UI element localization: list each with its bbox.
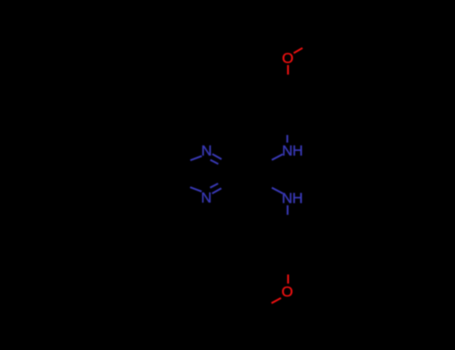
bond top NH to C2 blue half: [272, 154, 283, 160]
C3 to bottom anilino N carbon half (invisible): [231, 177, 272, 188]
bond bottom O to phenyl red half: [287, 275, 289, 284]
bond N1-C8a blue half: [190, 156, 202, 160]
bond top NH to phenyl blue half: [286, 135, 288, 143]
svg-text:N: N: [201, 191, 212, 207]
svg-text:N: N: [282, 191, 293, 207]
svg-text:N: N: [201, 144, 212, 160]
top ethyl group (invisible): [303, 13, 316, 48]
bond top O to ethyl CH2 red half: [294, 48, 303, 53]
bond bottom O to ethyl CH2 red half: [272, 298, 282, 303]
bond N1=C2 main blue half: [212, 154, 221, 159]
bond bottom NH to phenyl blue half: [287, 205, 289, 215]
bond N1=C2 inner double line blue half: [210, 160, 218, 164]
C2 to top anilino N carbon half (invisible): [231, 160, 272, 171]
benzo ring (carbon, invisible on black): [144, 150, 185, 198]
bottom phenyl ring (invisible): [268, 215, 307, 275]
bond N4=C3 main blue half: [212, 188, 221, 193]
svg-text:O: O: [281, 284, 293, 300]
bottom ethyl group (invisible): [259, 303, 272, 337]
bond top O to phenyl red half: [287, 65, 289, 75]
svg-text:N: N: [282, 143, 293, 159]
svg-text:H: H: [292, 143, 303, 159]
svg-text:O: O: [282, 51, 294, 67]
bond bottom NH to C3 blue half: [272, 188, 283, 194]
bond N4-C4a blue half: [190, 187, 202, 191]
svg-text:H: H: [292, 191, 303, 207]
top phenyl ring (invisible): [268, 75, 307, 134]
pyrazine carbon half-bonds (invisible): [185, 159, 231, 188]
bond N4=C3 inner double line blue half: [210, 184, 218, 188]
